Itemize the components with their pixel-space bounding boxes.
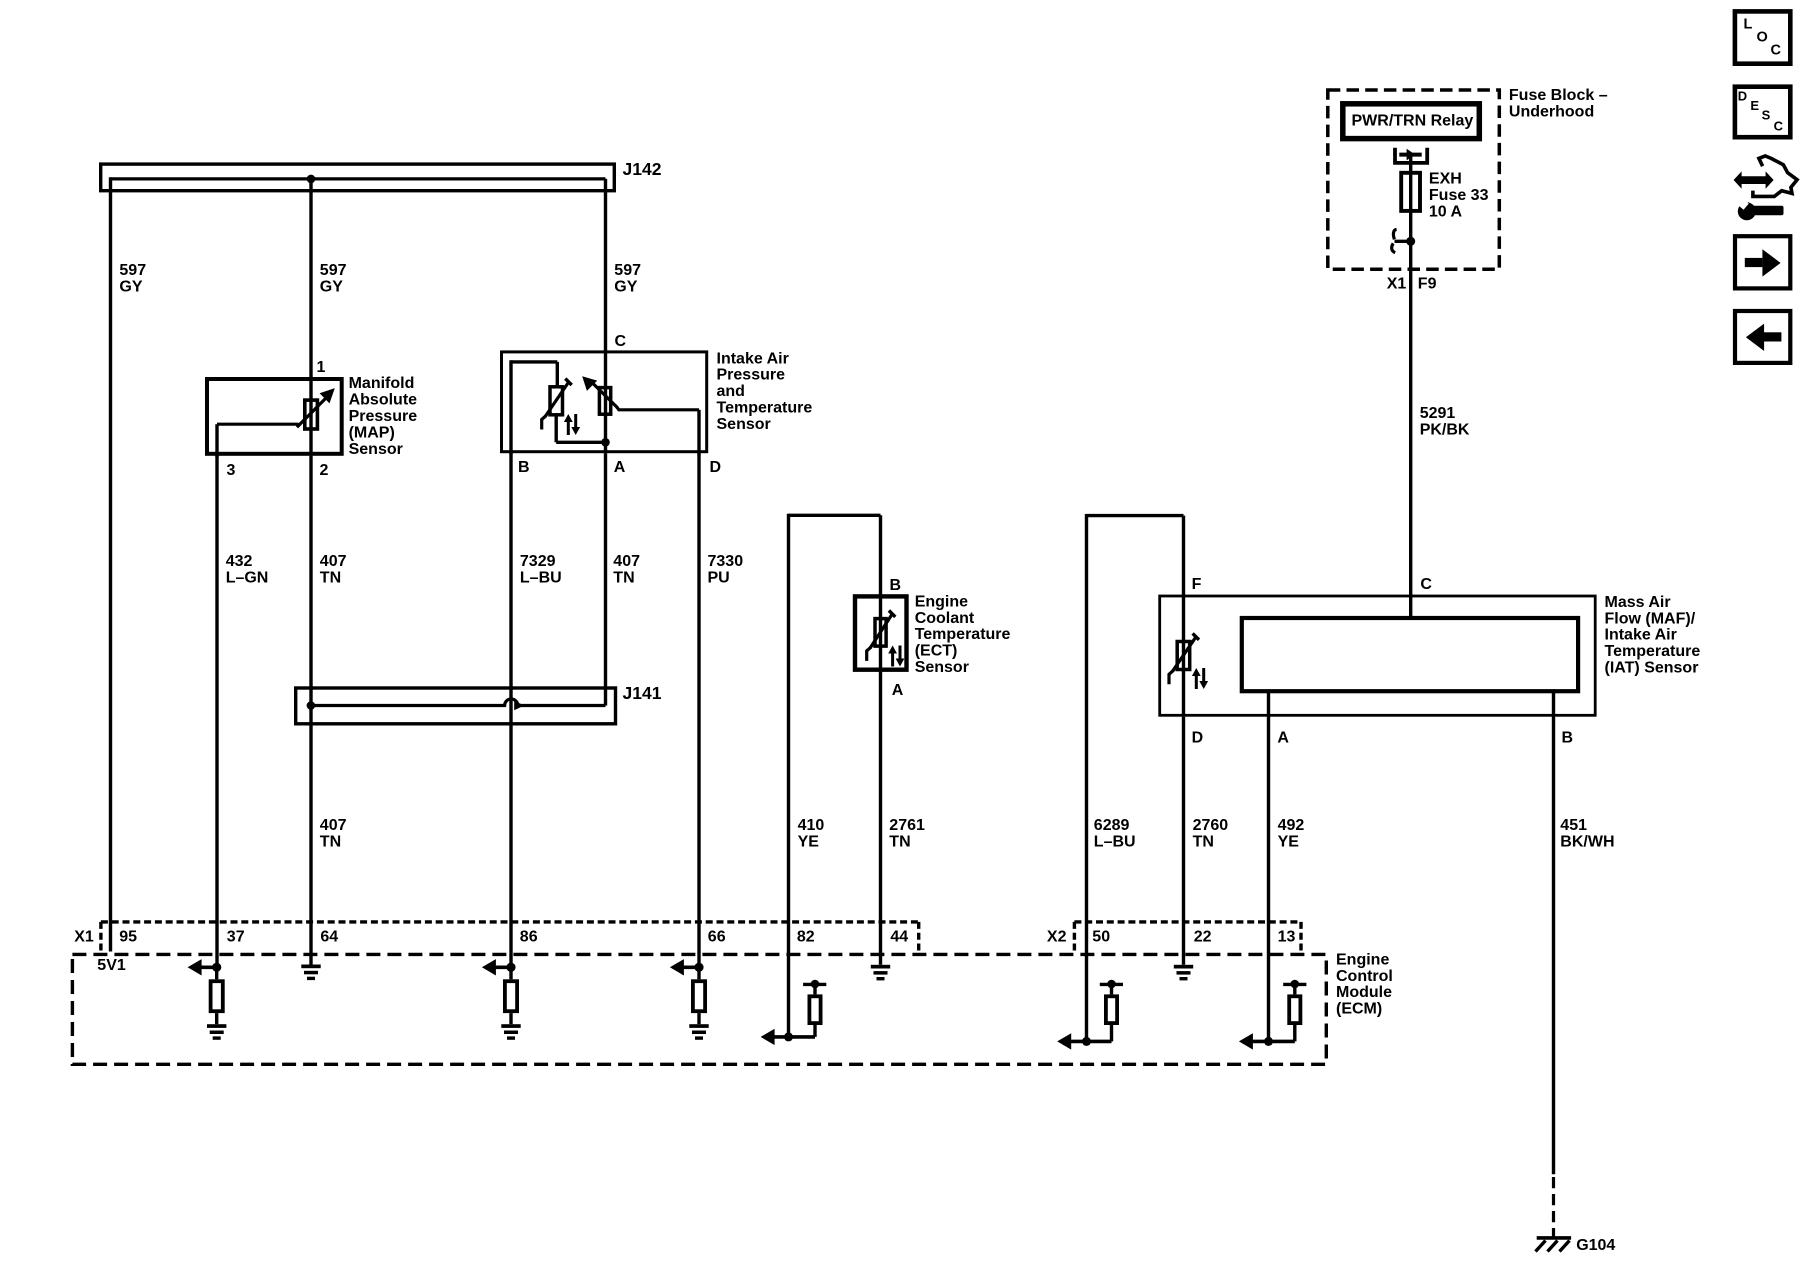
wire 2760 TN (MAF D to ECM 22) <box>1182 717 1185 965</box>
label 5V1 <box>97 957 126 974</box>
svg-text:TN: TN <box>320 833 341 850</box>
wire 597 GY right (J142 to IAT pin C) <box>604 179 607 352</box>
wire C through pressure pot to A <box>604 350 607 453</box>
J141 bus wire with hop <box>311 699 606 710</box>
svg-text:407: 407 <box>613 553 640 570</box>
wire to MAF pin F <box>1182 516 1185 596</box>
J142 bus wire <box>111 177 606 180</box>
svg-text:Mass Air: Mass Air <box>1605 594 1671 611</box>
wire F through thermistor to D <box>1182 595 1185 717</box>
svg-text:GY: GY <box>614 278 637 295</box>
svg-text:597: 597 <box>119 262 146 279</box>
PWR/TRN relay box <box>1343 104 1480 139</box>
label ECT sensor <box>915 593 1011 676</box>
pin 2 label (MAP) <box>320 462 329 479</box>
internal arrow at 50 <box>1057 1033 1071 1049</box>
svg-text:Engine: Engine <box>915 593 968 610</box>
label Fuse Block - Underhood <box>1509 87 1608 120</box>
label 407 TN right <box>613 553 640 586</box>
internal arrow at 82 <box>761 1029 775 1045</box>
svg-text:PWR/TRN Relay: PWR/TRN Relay <box>1352 113 1474 130</box>
pin 37 label <box>227 928 245 945</box>
svg-text:2761: 2761 <box>889 817 925 834</box>
svg-text:597: 597 <box>614 262 641 279</box>
label 597 GY right <box>614 262 641 295</box>
svg-text:X1: X1 <box>1387 276 1407 293</box>
svg-text:TN: TN <box>1193 833 1214 850</box>
svg-text:Pressure: Pressure <box>349 408 418 425</box>
pin A label (MAF) <box>1277 729 1289 746</box>
wire 451 BK/WH (MAF B to G104) <box>1552 691 1555 1174</box>
svg-text:B: B <box>890 577 902 594</box>
pin D label (IAT) <box>710 459 722 476</box>
svg-text:TN: TN <box>613 569 634 586</box>
MAP wiper arrow <box>297 388 335 427</box>
svg-text:64: 64 <box>320 928 338 945</box>
svg-text:5V1: 5V1 <box>97 957 126 974</box>
svg-text:GY: GY <box>119 278 142 295</box>
svg-text:C: C <box>1771 42 1782 58</box>
svg-text:Absolute: Absolute <box>349 392 418 409</box>
wire 407 TN (J141 to ECM 64) <box>309 706 312 965</box>
label 7329 L-BU <box>520 553 562 586</box>
pin 95 label <box>119 928 137 945</box>
internal pull-up at 50 <box>1069 980 1123 1042</box>
svg-text:Fuse 33: Fuse 33 <box>1429 187 1489 204</box>
wire 597 GY middle (J142 to MAP pin 1) <box>309 179 312 378</box>
MAF thermistor RT <box>1169 633 1199 684</box>
wire 407 TN (MAP 2 to J141) <box>309 456 312 706</box>
label 597 GY middle <box>320 262 347 295</box>
pin 64 label <box>320 928 338 945</box>
MAF thermistor arrows <box>1192 668 1208 689</box>
label 492 YE <box>1278 817 1305 850</box>
fuse block underhood dashed box <box>1328 90 1500 269</box>
svg-text:J142: J142 <box>623 159 662 179</box>
IAT internal wire RT bottom <box>556 414 605 442</box>
pin 1 label (MAP) <box>317 359 326 376</box>
internal arrow at 86 <box>482 959 511 975</box>
ECM dashed box <box>72 954 1326 1064</box>
IAT thermistor arrows <box>564 414 580 435</box>
svg-text:EXH: EXH <box>1429 171 1462 188</box>
pin 66 label <box>708 928 726 945</box>
label PWR/TRN Relay <box>1352 113 1474 130</box>
wire 6289 L-BU (ECM 50 up and over) <box>1087 514 1184 1041</box>
svg-text:22: 22 <box>1194 928 1212 945</box>
label 6289 L-BU <box>1094 817 1136 850</box>
splice pack J142 housing <box>101 164 615 191</box>
svg-text:95: 95 <box>119 928 137 945</box>
svg-text:and: and <box>717 383 745 400</box>
svg-text:37: 37 <box>227 928 245 945</box>
internal arrow at 13 <box>1239 1033 1253 1049</box>
node at ECM 13 <box>1264 1037 1273 1046</box>
wire 7329 L-BU (IAT B to ECM 86) <box>509 453 512 966</box>
ground at 44 <box>871 965 890 981</box>
svg-text:Temperature: Temperature <box>1605 643 1701 660</box>
svg-text:(ECT): (ECT) <box>915 643 958 660</box>
node at ECM 86 <box>506 963 515 972</box>
label 432 L-GN <box>226 553 269 586</box>
svg-text:(ECM): (ECM) <box>1336 1001 1382 1018</box>
junction node on J142 <box>307 175 316 184</box>
IAT wiper wire to pin D <box>697 410 700 455</box>
label Engine Control Module ECM <box>1336 951 1393 1017</box>
wire 5291 PK/BK (F9 to MAF C) <box>1409 239 1412 596</box>
ground at 64 <box>301 965 320 981</box>
label X1 (ECM) <box>74 928 94 945</box>
svg-text:A: A <box>892 682 904 699</box>
label MAP sensor <box>349 375 418 458</box>
svg-text:597: 597 <box>320 262 347 279</box>
svg-text:(IAT) Sensor: (IAT) Sensor <box>1605 660 1699 677</box>
svg-text:D: D <box>1192 729 1204 746</box>
svg-text:Flow (MAF)/: Flow (MAF)/ <box>1605 610 1696 627</box>
svg-text:Engine: Engine <box>1336 951 1389 968</box>
svg-text:Sensor: Sensor <box>915 659 969 676</box>
pin 13 label <box>1278 928 1296 945</box>
svg-text:Module: Module <box>1336 984 1392 1001</box>
svg-text:X1: X1 <box>74 928 94 945</box>
svg-text:S: S <box>1762 108 1771 123</box>
svg-text:5291: 5291 <box>1420 405 1456 422</box>
label 2760 TN <box>1193 817 1229 850</box>
svg-text:C: C <box>1420 576 1432 593</box>
svg-text:O: O <box>1757 30 1768 46</box>
icon DESC box <box>1735 87 1790 138</box>
wire through ECT sensor <box>879 594 882 672</box>
wire 2761 TN (ECT A to ECM 44) <box>879 672 882 965</box>
chassis ground G104 <box>1536 1238 1572 1252</box>
pin A label (IAT) <box>614 459 626 476</box>
wire to ECT pin B <box>879 515 882 595</box>
svg-text:Temperature: Temperature <box>717 400 813 417</box>
IAT internal wire B leg <box>511 360 557 454</box>
pin B label (MAF) <box>1562 729 1574 746</box>
svg-text:B: B <box>518 459 530 476</box>
node at ECM 82 <box>784 1032 793 1041</box>
junction node below fuse <box>1406 237 1415 246</box>
MAF inner module box <box>1242 618 1578 691</box>
pin 82 label <box>797 928 815 945</box>
label 407 TN upper <box>320 553 347 586</box>
svg-text:Pressure: Pressure <box>717 367 786 384</box>
svg-text:L–GN: L–GN <box>226 569 269 586</box>
svg-text:D: D <box>710 459 722 476</box>
ECT thermistor arrows <box>888 646 904 667</box>
label 407 TN lower <box>320 817 347 850</box>
svg-text:407: 407 <box>320 553 347 570</box>
pin C label (MAF) <box>1420 576 1432 593</box>
IAT thermistor RT <box>542 379 572 430</box>
pin B label (IAT) <box>518 459 530 476</box>
svg-text:Sensor: Sensor <box>349 441 403 458</box>
wire 492 YE (MAF A to ECM 13) <box>1267 691 1270 1041</box>
label J141 <box>623 683 662 703</box>
MAP potentiometer R <box>305 400 318 429</box>
svg-text:2: 2 <box>320 462 329 479</box>
internal resistor at 66 <box>693 967 705 1024</box>
MAP sensor box <box>207 379 342 454</box>
ECT sensor box <box>855 596 907 669</box>
junction node A (IAT) <box>601 438 610 447</box>
svg-text:A: A <box>1277 729 1289 746</box>
dashed wire to G104 <box>1552 1177 1555 1237</box>
label 597 GY left <box>119 262 146 295</box>
svg-text:Coolant: Coolant <box>915 610 975 627</box>
svg-text:66: 66 <box>708 928 726 945</box>
svg-text:7330: 7330 <box>708 553 744 570</box>
svg-text:86: 86 <box>520 928 538 945</box>
pin 50 label <box>1092 928 1110 945</box>
pin D label (MAF) <box>1192 729 1204 746</box>
fuse EXH 33 <box>1401 173 1420 211</box>
svg-text:TN: TN <box>320 569 341 586</box>
ground at 66 <box>689 1024 708 1040</box>
IAT pot wiper arrow <box>582 376 699 410</box>
svg-text:Temperature: Temperature <box>915 626 1011 643</box>
label 7330 PU <box>708 553 744 586</box>
splice pack J141 housing <box>296 688 616 724</box>
internal pull-up at 82 <box>772 980 826 1037</box>
icon back arrow box <box>1735 311 1790 363</box>
svg-text:B: B <box>1562 729 1574 746</box>
label 410 YE <box>798 817 825 850</box>
svg-text:Sensor: Sensor <box>717 416 771 433</box>
IAT pressure pot R <box>599 388 610 415</box>
svg-text:Manifold: Manifold <box>349 375 415 392</box>
svg-text:D: D <box>1738 89 1747 104</box>
svg-text:Fuse Block –: Fuse Block – <box>1509 87 1608 104</box>
svg-text:TN: TN <box>889 833 910 850</box>
svg-text:50: 50 <box>1092 928 1110 945</box>
svg-text:L: L <box>1744 17 1753 33</box>
wire 432 L-GN (MAP 3 to ECM 37) <box>215 455 218 966</box>
svg-text:PU: PU <box>708 569 730 586</box>
pin 22 label <box>1194 928 1212 945</box>
pin 86 label <box>520 928 538 945</box>
label G104 <box>1576 1237 1615 1254</box>
svg-text:82: 82 <box>797 928 815 945</box>
pin F label (MAF) <box>1192 576 1202 593</box>
svg-text:13: 13 <box>1278 928 1296 945</box>
svg-text:X2: X2 <box>1047 928 1067 945</box>
svg-text:10 A: 10 A <box>1429 203 1463 220</box>
svg-text:GY: GY <box>320 278 343 295</box>
internal resistor at 37 <box>211 967 223 1024</box>
MAP wiper wire to pin 3 <box>217 424 299 457</box>
svg-text:2760: 2760 <box>1193 817 1229 834</box>
internal arrow at 66 <box>670 959 699 975</box>
icon connector-view tool <box>1734 156 1798 220</box>
ground at 22 <box>1174 965 1193 981</box>
internal pull-up at 13 <box>1252 980 1306 1042</box>
wire relay to fuse <box>1409 155 1412 243</box>
terminal clip symbol <box>1392 229 1411 252</box>
svg-text:F9: F9 <box>1418 276 1437 293</box>
node at ECM 37 <box>212 963 221 972</box>
svg-text:F: F <box>1192 576 1202 593</box>
wire 597 GY left (J142 to ECM pin 95) <box>109 177 112 951</box>
wire C into module <box>1409 595 1412 617</box>
node at ECM 50 <box>1082 1037 1091 1046</box>
pin B label (ECT) <box>890 577 902 594</box>
label EXH Fuse 33 10 A <box>1429 171 1489 221</box>
wire 7330 PU (IAT D to ECM 66) <box>697 453 700 966</box>
connector X2 band <box>1074 922 1301 951</box>
pin C label (IAT) <box>615 333 627 350</box>
svg-text:432: 432 <box>226 553 253 570</box>
label IAT sensor <box>717 350 813 433</box>
icon LOC box <box>1735 11 1790 63</box>
relay output terminal cup <box>1395 148 1427 163</box>
junction node on J141 <box>307 701 316 710</box>
svg-text:44: 44 <box>890 928 908 945</box>
svg-text:410: 410 <box>798 817 825 834</box>
svg-text:407: 407 <box>320 817 347 834</box>
label 451 BK/WH <box>1560 817 1614 850</box>
connector X1 band <box>101 922 919 951</box>
wire 410 YE (ECM 82 up and over) <box>789 514 881 1037</box>
svg-text:3: 3 <box>227 462 236 479</box>
IAT/press sensor box <box>502 352 707 452</box>
svg-text:YE: YE <box>798 833 820 850</box>
ground at 37 <box>207 1024 226 1040</box>
svg-text:492: 492 <box>1278 817 1305 834</box>
svg-text:J141: J141 <box>623 683 662 703</box>
wire 407 TN (IAT A to J141) <box>604 453 607 705</box>
svg-text:PK/BK: PK/BK <box>1420 421 1470 438</box>
svg-text:Intake Air: Intake Air <box>717 350 789 367</box>
svg-text:1: 1 <box>317 359 326 376</box>
MAF/IAT sensor outer box <box>1160 596 1596 715</box>
svg-text:Control: Control <box>1336 968 1393 985</box>
label J142 <box>623 159 662 179</box>
label MAF/IAT sensor <box>1605 594 1701 677</box>
svg-text:BK/WH: BK/WH <box>1560 833 1614 850</box>
label 2761 TN <box>889 817 925 850</box>
pin 3 label (MAP) <box>227 462 236 479</box>
pin 44 label <box>890 928 908 945</box>
svg-text:C: C <box>1774 118 1784 133</box>
label F9 <box>1418 276 1437 293</box>
icon forward arrow box <box>1735 236 1790 288</box>
svg-text:YE: YE <box>1278 833 1300 850</box>
svg-text:C: C <box>615 333 627 350</box>
svg-text:L–BU: L–BU <box>1094 833 1136 850</box>
svg-text:A: A <box>614 459 626 476</box>
svg-text:7329: 7329 <box>520 553 556 570</box>
ECT thermistor RT <box>867 611 896 661</box>
svg-text:Intake Air: Intake Air <box>1605 627 1677 644</box>
label X2 (ECM) <box>1047 928 1067 945</box>
pin A label (ECT) <box>892 682 904 699</box>
label X1 (fuse block) <box>1387 276 1407 293</box>
ground at 86 <box>501 1024 520 1040</box>
internal resistor at 86 <box>505 967 517 1024</box>
svg-text:G104: G104 <box>1576 1237 1615 1254</box>
wire MAP pin1 to pin2 through sensor <box>309 377 312 456</box>
internal arrow at 37 <box>188 959 217 975</box>
svg-text:451: 451 <box>1560 817 1587 834</box>
node at ECM 66 <box>694 963 703 972</box>
svg-text:6289: 6289 <box>1094 817 1130 834</box>
svg-text:L–BU: L–BU <box>520 569 562 586</box>
label 5291 PK/BK <box>1420 405 1470 438</box>
svg-text:(MAP): (MAP) <box>349 424 395 441</box>
svg-text:E: E <box>1750 98 1759 113</box>
svg-text:Underhood: Underhood <box>1509 103 1594 120</box>
